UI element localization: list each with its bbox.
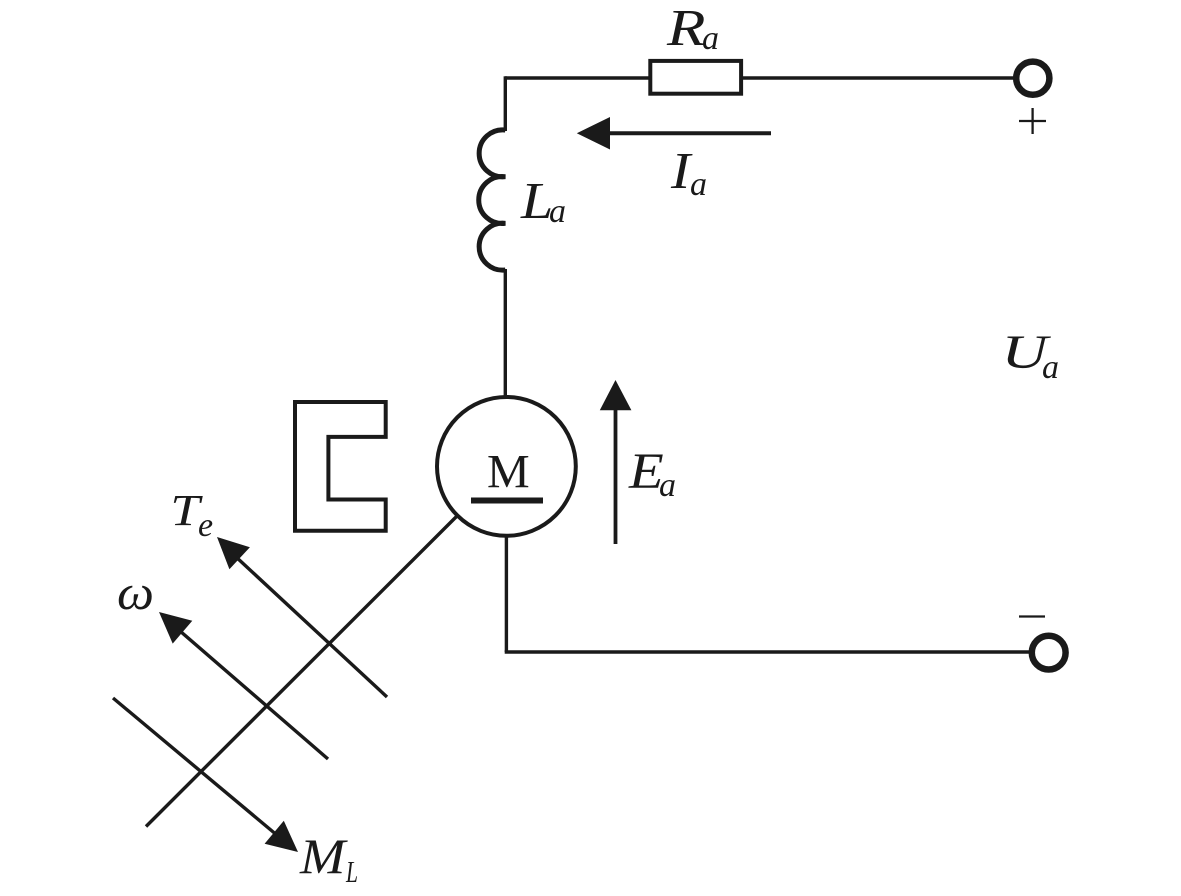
current arrow Ia	[607, 131, 771, 135]
minus sign	[1019, 615, 1045, 617]
svg-text:M: M	[299, 828, 348, 884]
svg-text:ω: ω	[117, 564, 154, 620]
svg-text:a: a	[690, 166, 707, 203]
emf arrow Ea	[614, 408, 618, 544]
svg-text:a: a	[659, 467, 676, 504]
svg-text:M: M	[487, 446, 530, 499]
terminal minus	[1032, 636, 1066, 670]
svg-text:e: e	[198, 507, 213, 544]
speed arrow omega	[180, 631, 328, 759]
torque arrow Te	[235, 556, 387, 697]
wire top horizontal	[505, 76, 1014, 79]
svg-text:L: L	[345, 854, 358, 889]
field pole stator	[295, 402, 386, 531]
wire bottom horizontal	[505, 650, 1030, 653]
inductor La	[479, 130, 506, 270]
svg-text:a: a	[702, 20, 719, 57]
plus sign	[1019, 120, 1046, 122]
resistor Ra	[650, 61, 741, 94]
svg-text:a: a	[1042, 349, 1059, 386]
svg-text:R: R	[666, 0, 706, 57]
load torque arrow ML	[113, 698, 278, 836]
svg-text:a: a	[549, 193, 566, 230]
underline of M	[471, 498, 543, 504]
motor M1 circle	[437, 397, 576, 536]
wire left vertical lower	[504, 269, 507, 397]
wire left vertical upper	[504, 76, 507, 131]
wire bottom vertical	[505, 537, 508, 652]
terminal plus	[1016, 62, 1049, 95]
shaft	[146, 516, 457, 827]
